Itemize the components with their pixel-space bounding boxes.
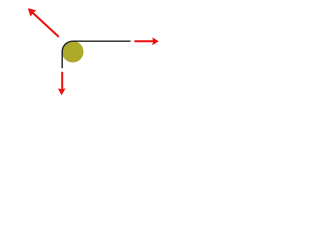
force vector down (shaft) xyxy=(61,72,63,90)
force vector down (head) xyxy=(58,88,66,95)
force vector up-left (shaft) xyxy=(33,13,59,37)
node pulley wheel xyxy=(62,41,84,63)
force vector right (head) xyxy=(152,37,159,45)
force vector up-left (head) xyxy=(28,8,37,16)
wire rope path (horizontal + wrap arc over pulley + vertical) xyxy=(62,41,130,68)
force vector right (shaft) xyxy=(134,40,154,42)
